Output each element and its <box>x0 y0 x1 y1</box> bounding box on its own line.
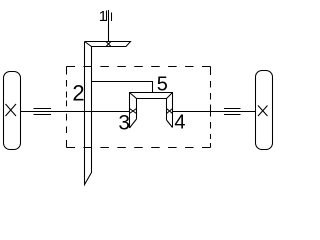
svg-text:3: 3 <box>118 112 130 135</box>
svg-text:5: 5 <box>157 73 168 95</box>
svg-text:4: 4 <box>174 112 185 134</box>
svg-text:2: 2 <box>72 81 84 106</box>
svg-text:1: 1 <box>99 8 107 25</box>
